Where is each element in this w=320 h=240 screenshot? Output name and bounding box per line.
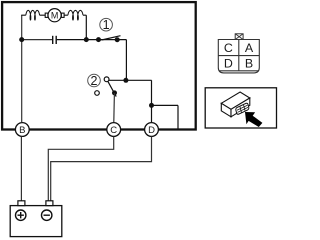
battery terminal post negative bbox=[46, 201, 53, 206]
battery plus symbol bbox=[16, 210, 26, 220]
wire: horizontal from SW2 contact to right corner bbox=[109, 79, 152, 81]
wire: C down-left to battery negative bbox=[48, 137, 113, 202]
wire: branch from node above D to right bbox=[152, 104, 179, 106]
connector 3D top face bbox=[221, 92, 250, 109]
label circle 1 bbox=[100, 18, 113, 31]
wire: vertical down to D bbox=[151, 80, 153, 122]
svg-text:C: C bbox=[110, 125, 117, 136]
connector 3D right face bbox=[231, 98, 250, 117]
wire: vertical from SW1 down to node bbox=[125, 40, 127, 81]
pin table connector clip bbox=[235, 34, 243, 40]
svg-text:B: B bbox=[245, 57, 253, 71]
wire: left riser from motor loop to B bbox=[21, 15, 23, 122]
switch SW2 lever bbox=[108, 81, 117, 97]
svg-text:M: M bbox=[51, 10, 59, 20]
svg-text:1: 1 bbox=[103, 18, 110, 32]
battery minus symbol bbox=[42, 210, 52, 220]
switch SW1 contact dot right bbox=[115, 37, 120, 42]
svg-text:A: A bbox=[245, 41, 254, 55]
main schematic box border bbox=[2, 2, 196, 129]
wire: right riser of motor loop bbox=[85, 15, 87, 39]
capacitor C1 plate left bbox=[52, 36, 54, 44]
svg-text:B: B bbox=[19, 125, 25, 136]
connector terminal D circle bbox=[145, 123, 159, 137]
svg-text:D: D bbox=[148, 125, 155, 136]
svg-text:C: C bbox=[224, 41, 233, 55]
svg-text:2: 2 bbox=[91, 74, 98, 88]
wire: branch vertical down to box border bbox=[177, 105, 179, 128]
wire: B down to battery positive bbox=[20, 137, 22, 202]
junction dot: SW1 vertical meets horizontal bbox=[123, 78, 128, 83]
arrow pointing to connector bbox=[245, 112, 262, 127]
svg-text:D: D bbox=[224, 57, 233, 71]
wire: SW2 common down to C bbox=[113, 93, 116, 122]
junction dot above D bbox=[149, 103, 154, 108]
motor M circle bbox=[48, 9, 61, 22]
inductor coil L1 bbox=[26, 10, 40, 20]
connector terminal C circle bbox=[107, 123, 121, 137]
switch SW2 open contact A bbox=[104, 77, 109, 82]
wire: bottom wire from capacitor to switch 1 corner bbox=[57, 39, 127, 41]
label circle 2 bbox=[88, 74, 101, 87]
switch SW2 common dot bbox=[112, 90, 117, 95]
connector terminal B circle bbox=[15, 123, 29, 137]
inductor coil L2 bbox=[68, 10, 83, 20]
pin table shell bbox=[218, 40, 259, 73]
connector socket detail bbox=[235, 103, 249, 115]
motor brush left bbox=[45, 13, 48, 17]
connector view box frame bbox=[205, 88, 276, 128]
wire: top branch lead-ins bbox=[21, 14, 86, 16]
battery body bbox=[10, 206, 62, 237]
junction dot: bottom wire / right riser bbox=[84, 37, 89, 42]
capacitor C1 plate right bbox=[55, 36, 57, 44]
switch SW1 contact dot left bbox=[96, 37, 101, 42]
wire: D down-left to battery negative bbox=[51, 137, 152, 202]
battery terminal post positive bbox=[18, 201, 25, 206]
switch SW2 open contact B bbox=[95, 91, 100, 96]
connector 3D left face bbox=[221, 103, 231, 117]
motor brush right bbox=[61, 13, 64, 17]
wire: bottom wire left segment to capacitor bbox=[22, 39, 53, 41]
pin table grid lines bbox=[218, 40, 259, 71]
switch SW1 lever bbox=[102, 36, 121, 40]
junction dot: bottom wire / left riser bbox=[19, 37, 24, 42]
